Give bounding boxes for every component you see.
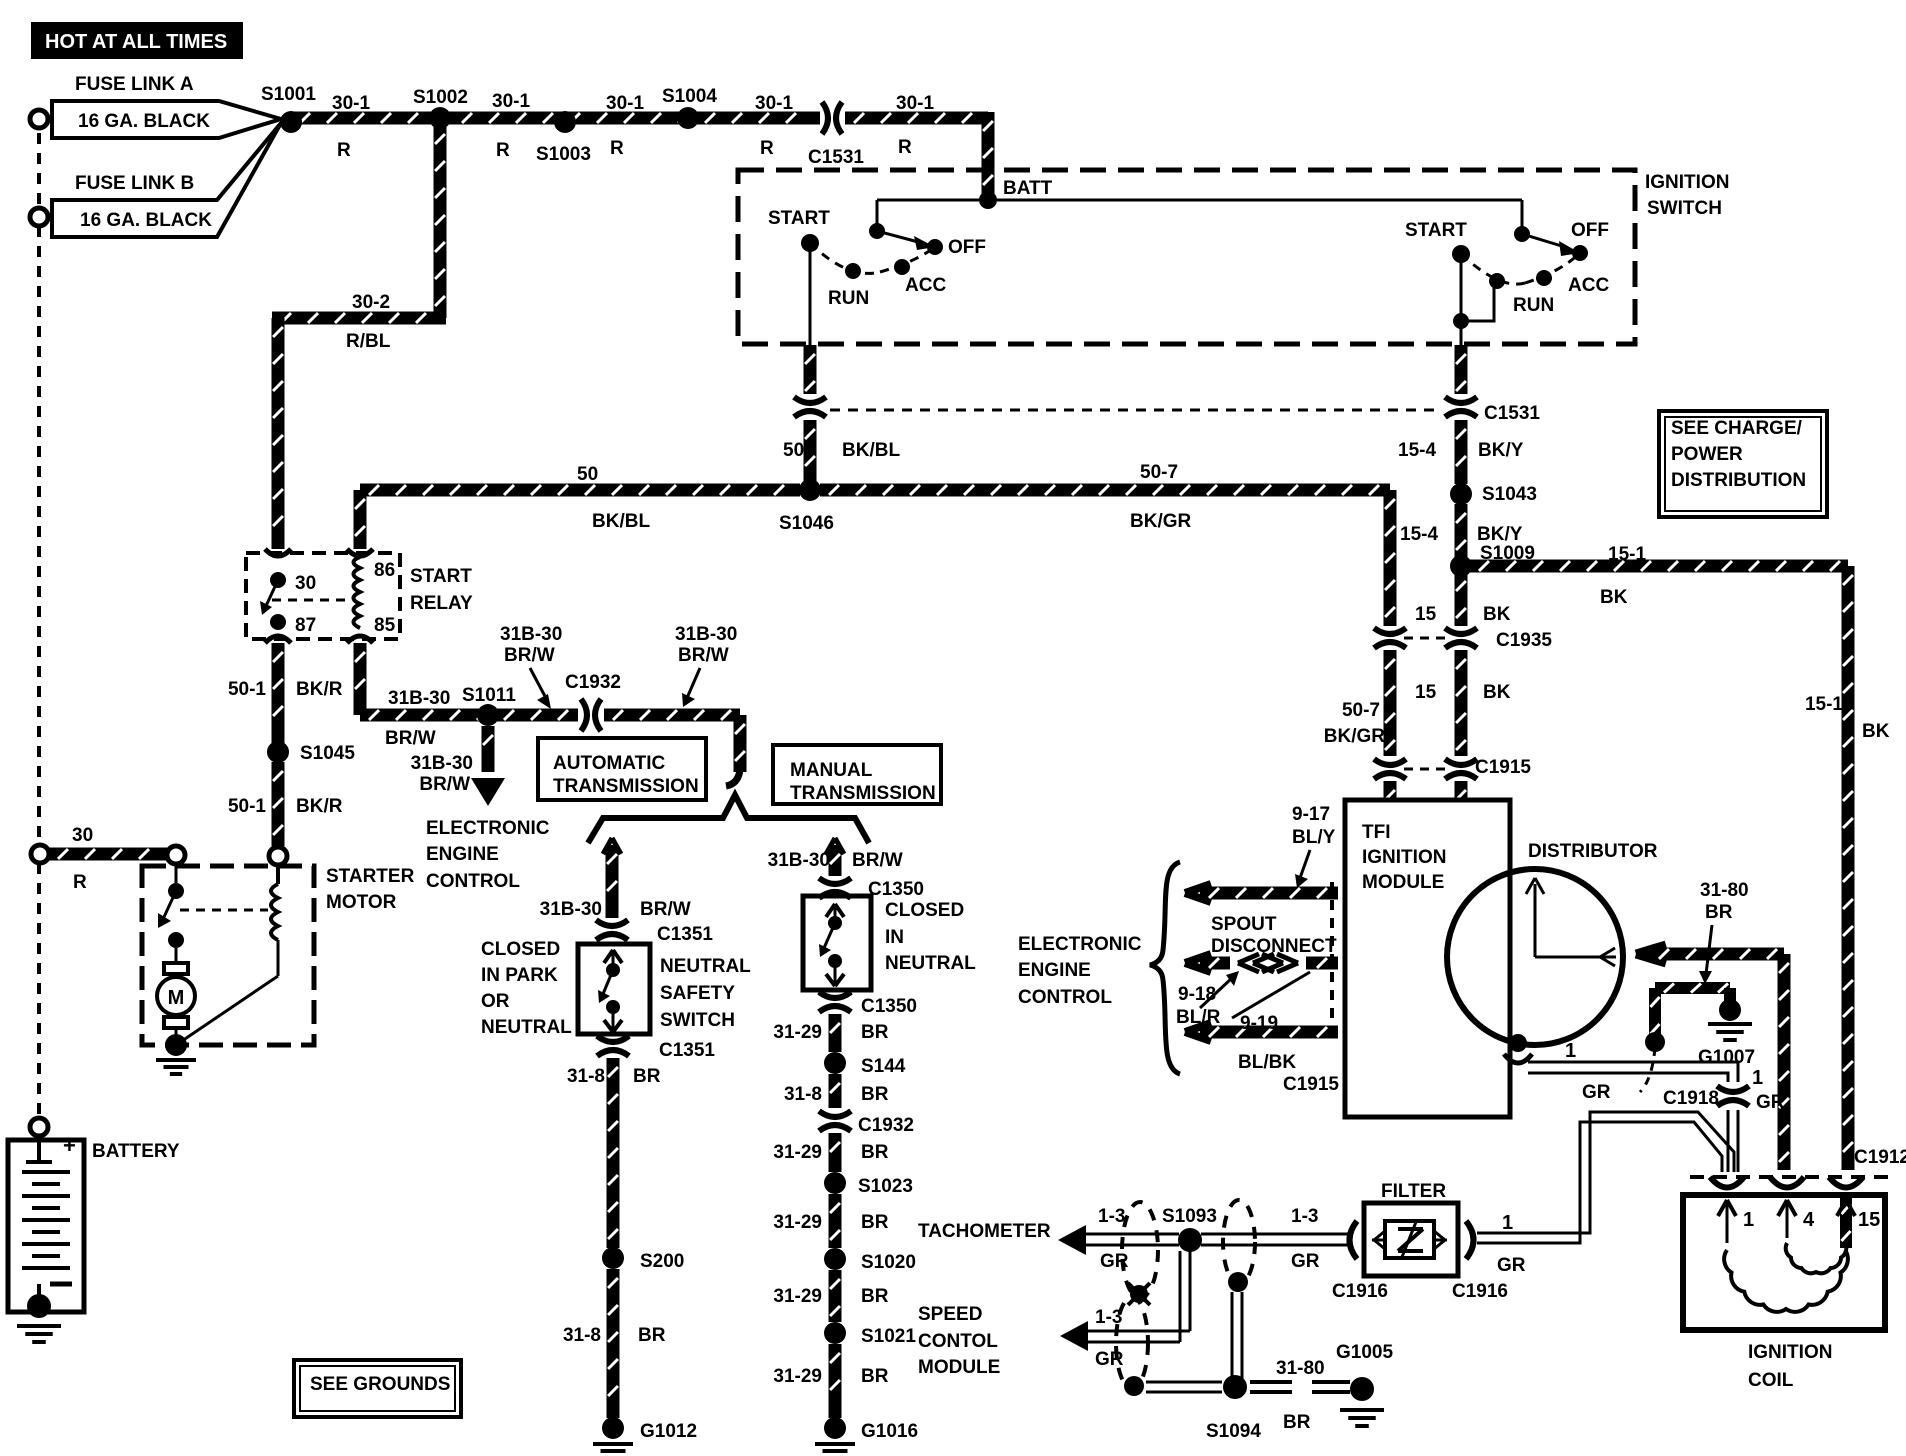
svg-text:R: R — [337, 140, 351, 161]
splice S1002 — [429, 107, 451, 129]
connector C1932 lower — [819, 1111, 851, 1117]
battery ground — [27, 1294, 51, 1318]
svg-text:BATT: BATT — [1003, 178, 1053, 199]
C1918 dashed from pigtail — [1640, 1048, 1655, 1092]
shield ring around tach wire — [1122, 1202, 1158, 1298]
svg-text:POWER: POWER — [1671, 444, 1743, 465]
svg-text:MANUAL: MANUAL — [790, 760, 873, 781]
battery box — [8, 1140, 84, 1312]
right START wire + link to RUN — [1460, 254, 1463, 321]
splice S1023 — [824, 1172, 846, 1194]
svg-text:BR: BR — [861, 1286, 889, 1307]
wire 15-1 BK to right edge — [1470, 560, 1848, 573]
svg-text:31B-30: 31B-30 — [411, 753, 473, 774]
svg-text:30-1: 30-1 — [332, 93, 370, 114]
ground G1007 — [1719, 999, 1741, 1021]
svg-text:GR: GR — [1582, 1082, 1611, 1103]
svg-text:C1350: C1350 — [868, 879, 924, 900]
right OFF contact — [1572, 245, 1588, 261]
battery feed dashed line — [37, 133, 41, 209]
svg-text:S1003: S1003 — [536, 144, 591, 165]
svg-text:OFF: OFF — [948, 237, 986, 258]
svg-text:GR: GR — [1095, 1349, 1124, 1370]
svg-text:G1016: G1016 — [861, 1421, 918, 1442]
svg-text:BK: BK — [1600, 587, 1628, 608]
svg-text:RELAY: RELAY — [410, 593, 473, 614]
svg-text:STARTER: STARTER — [326, 866, 415, 887]
svg-text:CLOSED: CLOSED — [885, 900, 964, 921]
C1531 dashed tie line — [830, 409, 1438, 412]
svg-text:COIL: COIL — [1748, 1370, 1794, 1391]
relay box pass-through arcs — [265, 549, 291, 556]
automatic transmission box — [538, 738, 706, 800]
splice S1021 — [824, 1322, 846, 1344]
svg-text:S1023: S1023 — [858, 1176, 913, 1197]
spout wire 9-19 BL/BK — [1185, 1023, 1211, 1032]
coil primary winding — [1724, 1250, 1848, 1312]
svg-text:ACC: ACC — [905, 275, 946, 296]
EEC brace — [1150, 862, 1180, 1074]
svg-text:C1912: C1912 — [1854, 1147, 1906, 1168]
splice S1004 — [677, 107, 699, 129]
coil pin 15 — [1840, 1195, 1852, 1248]
svg-text:S1011: S1011 — [462, 685, 516, 706]
splice S1003 — [554, 111, 576, 133]
svg-text:BR: BR — [861, 1366, 889, 1387]
wire 1 GR filter to coil pin 1 — [1477, 1112, 1734, 1233]
svg-text:MODULE: MODULE — [918, 1357, 1000, 1378]
wire 31B-30 BR/W from relay coil — [354, 643, 367, 715]
connector C1915 top — [1374, 759, 1406, 765]
splice S200 — [602, 1247, 624, 1269]
svg-text:BK/R: BK/R — [296, 679, 343, 700]
svg-text:NEUTRAL: NEUTRAL — [481, 1017, 572, 1038]
svg-text:31-8: 31-8 — [563, 1325, 601, 1346]
splice S1045 — [267, 741, 289, 763]
svg-text:85: 85 — [374, 615, 396, 636]
svg-text:31-29: 31-29 — [773, 1286, 822, 1307]
left START contact — [801, 234, 819, 252]
starter motor dashed box — [142, 866, 314, 1045]
filter side arrows — [1372, 1239, 1385, 1242]
svg-text:OFF: OFF — [1571, 220, 1609, 241]
wire 15-4 BK/Y drop from right switch — [1455, 345, 1468, 394]
splice S144 — [824, 1052, 846, 1074]
shield ring drain node — [1130, 1285, 1148, 1303]
left OFF contact — [927, 239, 943, 255]
wire BATT to right pivot — [988, 199, 1522, 202]
svg-text:1: 1 — [1752, 1067, 1763, 1089]
svg-text:CONTROL: CONTROL — [1018, 987, 1112, 1008]
ground G1012 — [602, 1417, 624, 1439]
wire 31-8 BR — [607, 1058, 620, 1248]
right ACC contact — [1536, 270, 1552, 286]
fuse link A terminal — [30, 110, 48, 128]
wire 1 GR C1918 down to coil pin 1 — [1727, 1110, 1730, 1172]
starter solenoid terminal — [167, 846, 185, 864]
fuse link B terminal — [30, 208, 48, 226]
svg-text:BK: BK — [1483, 682, 1511, 703]
svg-text:ACC: ACC — [1568, 275, 1609, 296]
svg-text:C1916: C1916 — [1452, 1281, 1508, 1302]
svg-text:NEUTRAL: NEUTRAL — [660, 956, 751, 977]
svg-text:31B-30: 31B-30 — [500, 624, 562, 645]
svg-text:SAFETY: SAFETY — [660, 983, 735, 1004]
fuse link A tag — [52, 101, 281, 138]
svg-text:CLOSED: CLOSED — [481, 939, 560, 960]
svg-text:S1043: S1043 — [1482, 484, 1537, 505]
connector C1916 halves — [1350, 1221, 1358, 1259]
C1350 switch internals — [826, 904, 835, 917]
svg-text:G1012: G1012 — [640, 1421, 697, 1442]
svg-text:C1932: C1932 — [858, 1115, 914, 1136]
svg-text:IN: IN — [885, 927, 904, 948]
wire 1 GR distributor to C1918 — [1528, 1062, 1738, 1082]
svg-text:BR: BR — [1283, 1412, 1311, 1433]
svg-text:BK/GR: BK/GR — [1130, 511, 1192, 532]
svg-text:SEE CHARGE/: SEE CHARGE/ — [1671, 418, 1803, 439]
TFI ignition module box — [1345, 800, 1510, 1117]
filter box — [1364, 1203, 1458, 1276]
wire BATT to left pivot — [877, 199, 988, 202]
svg-text:9-18: 9-18 — [1178, 984, 1216, 1005]
svg-text:50: 50 — [577, 464, 598, 485]
svg-text:R/BL: R/BL — [346, 331, 391, 352]
connector C1531 right half — [1445, 397, 1477, 403]
connector C1350 lower — [819, 992, 851, 998]
svg-text:16 GA. BLACK: 16 GA. BLACK — [80, 210, 212, 231]
svg-text:15: 15 — [1415, 682, 1437, 703]
svg-text:30-1: 30-1 — [896, 93, 934, 114]
svg-text:IGNITION: IGNITION — [1362, 847, 1446, 868]
svg-text:86: 86 — [374, 560, 395, 581]
svg-text:15: 15 — [1858, 1209, 1880, 1231]
svg-text:1: 1 — [1565, 1040, 1576, 1062]
svg-text:BR: BR — [633, 1066, 661, 1087]
svg-text:C1351: C1351 — [659, 1040, 715, 1061]
svg-text:BR: BR — [861, 1212, 889, 1233]
filter Z symbol — [1398, 1227, 1423, 1231]
svg-text:NEUTRAL: NEUTRAL — [885, 953, 976, 974]
svg-text:S1094: S1094 — [1206, 1421, 1261, 1442]
wire 50-1 BK/R — [272, 643, 285, 744]
svg-text:G1007: G1007 — [1698, 1047, 1755, 1068]
svg-text:31-29: 31-29 — [773, 1022, 822, 1043]
svg-text:31-29: 31-29 — [773, 1142, 822, 1163]
svg-text:TRANSMISSION: TRANSMISSION — [790, 783, 936, 804]
svg-text:SWITCH: SWITCH — [1647, 198, 1722, 219]
splice S1093 — [1178, 1228, 1202, 1252]
svg-text:1: 1 — [1743, 1209, 1754, 1231]
svg-text:C1531: C1531 — [1484, 403, 1540, 424]
left RUN contact — [845, 263, 861, 279]
svg-text:31-29: 31-29 — [773, 1212, 822, 1233]
svg-text:1: 1 — [1502, 1212, 1513, 1234]
ignition coil box — [1683, 1195, 1885, 1330]
svg-text:16 GA. BLACK: 16 GA. BLACK — [78, 111, 210, 132]
svg-text:C1935: C1935 — [1496, 630, 1552, 651]
svg-text:FUSE LINK B: FUSE LINK B — [75, 173, 194, 194]
coil feed wire to distributor — [1636, 945, 1666, 954]
SEE CHARGE/POWER DISTRIBUTION box — [1659, 411, 1827, 517]
svg-text:MODULE: MODULE — [1362, 872, 1444, 893]
svg-text:30: 30 — [72, 825, 93, 846]
ground G1016 — [824, 1417, 846, 1439]
svg-text:15-1: 15-1 — [1805, 694, 1843, 715]
connector C1351 upper — [596, 920, 628, 926]
svg-text:31B-30: 31B-30 — [388, 688, 450, 709]
svg-text:R: R — [760, 138, 774, 159]
svg-text:IGNITION: IGNITION — [1748, 1342, 1832, 1363]
relay contact 87 — [270, 614, 286, 630]
svg-text:START: START — [768, 208, 830, 229]
svg-text:RUN: RUN — [1513, 295, 1554, 316]
svg-text:IGNITION: IGNITION — [1645, 172, 1729, 193]
left switch dashed arc — [810, 243, 880, 273]
svg-text:31-80: 31-80 — [1276, 1358, 1325, 1379]
battery plus — [37, 1136, 41, 1162]
svg-text:BK: BK — [1483, 604, 1511, 625]
svg-text:R: R — [496, 140, 510, 161]
coil pin 4 — [1778, 1200, 1787, 1216]
battery plates — [22, 1170, 70, 1174]
svg-text:TRANSMISSION: TRANSMISSION — [553, 776, 699, 797]
svg-text:31B-30: 31B-30 — [675, 624, 737, 645]
svg-text:OR: OR — [481, 991, 510, 1012]
solenoid coil — [276, 865, 280, 884]
svg-text:9-17: 9-17 — [1292, 804, 1330, 825]
svg-text:R: R — [898, 137, 912, 158]
svg-text:ELECTRONIC: ELECTRONIC — [426, 818, 550, 839]
svg-text:C1351: C1351 — [657, 924, 713, 945]
wire 31-80 BR to G1007 — [1649, 988, 1661, 1038]
wire 30-1 R from S1001 to C1531 — [291, 112, 820, 125]
svg-text:C1915: C1915 — [1283, 1074, 1339, 1095]
relay blade — [266, 580, 278, 606]
svg-text:30-1: 30-1 — [606, 93, 644, 114]
svg-text:SWITCH: SWITCH — [660, 1010, 735, 1031]
coil pin 1 — [1718, 1200, 1727, 1216]
connector C1531 inline — [822, 102, 828, 134]
svg-text:GR: GR — [1291, 1251, 1320, 1272]
svg-text:BK/GR: BK/GR — [1324, 726, 1386, 747]
svg-text:BL/Y: BL/Y — [1292, 827, 1336, 848]
svg-text:C1531: C1531 — [808, 147, 864, 168]
svg-text:9-19: 9-19 — [1240, 1013, 1278, 1034]
svg-text:BR: BR — [861, 1084, 889, 1105]
svg-text:START: START — [410, 566, 472, 587]
drain wire down to S1094 — [1231, 1292, 1234, 1382]
svg-text:C1916: C1916 — [1332, 1281, 1388, 1302]
svg-text:S1045: S1045 — [300, 743, 355, 764]
right START contact — [1452, 245, 1470, 263]
svg-text:+: + — [63, 1133, 76, 1158]
svg-text:ELECTRONIC: ELECTRONIC — [1018, 934, 1142, 955]
svg-text:BK: BK — [1862, 721, 1890, 742]
svg-text:87: 87 — [295, 615, 316, 636]
wire 30-2 R/BL — [434, 125, 447, 318]
svg-text:BR/W: BR/W — [852, 850, 903, 871]
svg-text:S1001: S1001 — [261, 84, 316, 105]
wire 1-3 GR filter to S1093 — [1201, 1233, 1352, 1236]
svg-text:BR: BR — [861, 1142, 889, 1163]
connector C1912 — [1690, 1175, 1888, 1179]
svg-text:S200: S200 — [640, 1251, 684, 1272]
ignition switch dashed box — [738, 170, 1635, 344]
svg-text:CONTOL: CONTOL — [918, 1331, 998, 1352]
HOT AT ALL TIMES banner — [31, 22, 243, 59]
svg-text:31-29: 31-29 — [773, 1366, 822, 1387]
fuse link B tag — [52, 123, 281, 237]
svg-text:BL/BK: BL/BK — [1238, 1052, 1296, 1073]
svg-text:FUSE LINK A: FUSE LINK A — [75, 74, 194, 95]
start relay dashed box — [246, 553, 400, 639]
spout wire 9-18 BL/R with disconnect — [1185, 954, 1211, 963]
starter 50-1 terminal — [269, 847, 287, 865]
svg-text:BR/W: BR/W — [504, 645, 555, 666]
solenoid switch — [175, 864, 178, 884]
svg-text:15-1: 15-1 — [1608, 544, 1646, 565]
splice S1011 — [477, 704, 499, 726]
svg-text:R: R — [73, 872, 87, 893]
svg-text:C1932: C1932 — [565, 672, 621, 693]
svg-text:BK/R: BK/R — [296, 796, 343, 817]
splice S1043 — [1450, 483, 1472, 505]
connector C1918 — [1717, 1086, 1749, 1092]
svg-text:S144: S144 — [861, 1056, 906, 1077]
svg-text:MOTOR: MOTOR — [326, 892, 397, 913]
left switch blade to OFF — [877, 231, 922, 243]
svg-text:HOT AT ALL TIMES: HOT AT ALL TIMES — [45, 31, 227, 53]
right switch pivot — [1514, 226, 1530, 242]
svg-text:50-1: 50-1 — [228, 679, 266, 700]
svg-text:SPEED: SPEED — [918, 1304, 982, 1325]
splice S1020 — [824, 1248, 846, 1270]
svg-text:TFI: TFI — [1362, 822, 1391, 843]
svg-text:50: 50 — [783, 440, 804, 461]
svg-text:BK/BL: BK/BL — [592, 511, 650, 532]
svg-text:S1004: S1004 — [662, 86, 717, 107]
wire end hook at brace — [726, 770, 740, 786]
svg-text:31-8: 31-8 — [784, 1084, 822, 1105]
svg-text:C1918: C1918 — [1663, 1088, 1719, 1109]
svg-text:31-80: 31-80 — [1700, 880, 1749, 901]
svg-text:BATTERY: BATTERY — [92, 1141, 180, 1162]
svg-text:S1020: S1020 — [861, 1252, 916, 1273]
svg-text:30-1: 30-1 — [755, 93, 793, 114]
svg-text:50-7: 50-7 — [1140, 462, 1178, 483]
wire 31B-30 BR/W auto column — [603, 838, 612, 854]
svg-text:1-3: 1-3 — [1291, 1206, 1318, 1227]
right switch blade to OFF — [1522, 234, 1565, 247]
connector C1351 lower — [597, 1036, 629, 1042]
wire 50 BK/BL drop from left switch — [804, 345, 817, 394]
NSS internals — [604, 950, 613, 963]
splice S1094 — [1223, 1375, 1247, 1399]
svg-text:BR: BR — [861, 1022, 889, 1043]
svg-text:S1046: S1046 — [779, 513, 834, 534]
svg-text:ENGINE: ENGINE — [1018, 960, 1091, 981]
svg-text:FILTER: FILTER — [1381, 1181, 1446, 1202]
battery minus — [50, 1282, 72, 1287]
svg-text:G1005: G1005 — [1336, 1342, 1393, 1363]
svg-text:50-7: 50-7 — [1342, 700, 1380, 721]
node BATT — [979, 191, 997, 209]
distributor circle — [1447, 869, 1623, 1045]
svg-text:M: M — [168, 987, 185, 1009]
svg-text:GR: GR — [1497, 1255, 1526, 1276]
coil secondary winding — [1786, 1243, 1847, 1273]
closed in neutral switch box — [803, 896, 871, 990]
svg-text:AUTOMATIC: AUTOMATIC — [553, 753, 666, 774]
svg-text:SPOUT: SPOUT — [1211, 914, 1277, 935]
svg-text:BK/Y: BK/Y — [1478, 440, 1524, 461]
shield ring around speed wire — [1116, 1297, 1148, 1389]
svg-text:BR: BR — [1705, 902, 1733, 923]
wire 31-29 BR — [829, 1014, 842, 1052]
svg-text:BR: BR — [638, 1325, 666, 1346]
svg-text:DISTRIBUTOR: DISTRIBUTOR — [1528, 841, 1658, 862]
svg-text:CONTROL: CONTROL — [426, 871, 520, 892]
SEE GROUNDS box — [294, 1360, 461, 1417]
svg-text:DISTRIBUTION: DISTRIBUTION — [1671, 470, 1806, 491]
rotor arrow — [1534, 884, 1537, 957]
manual transmission box — [773, 745, 941, 804]
svg-text:31B-30: 31B-30 — [768, 850, 830, 871]
solenoid link dashed — [180, 909, 268, 912]
svg-text:4: 4 — [1803, 1209, 1815, 1231]
svg-text:BK/Y: BK/Y — [1477, 524, 1523, 545]
relay coil — [354, 557, 361, 628]
svg-text:BR/W: BR/W — [640, 899, 691, 920]
svg-text:31B-30: 31B-30 — [540, 899, 602, 920]
svg-text:50-1: 50-1 — [228, 796, 266, 817]
battery terminal circle — [30, 1118, 48, 1136]
wire 31B-30 BR/W stub to EEC — [482, 726, 495, 772]
wire 31-80 BR to G1005 — [1250, 1380, 1292, 1384]
shield ring around filter wire — [1223, 1200, 1255, 1284]
wire 50 BK/BL horizontal run — [360, 484, 800, 497]
wire 30-1 R drop to BATT — [982, 112, 995, 200]
svg-text:S1093: S1093 — [1162, 1206, 1217, 1227]
svg-text:BK/BL: BK/BL — [842, 440, 900, 461]
motor M — [175, 948, 178, 963]
wire 50-7 BK/GR drop — [1384, 490, 1397, 626]
svg-text:TACHOMETER: TACHOMETER — [918, 1221, 1051, 1242]
relay link dashed — [272, 599, 350, 602]
starter ground node — [165, 1034, 187, 1056]
svg-text:31-8: 31-8 — [567, 1066, 605, 1087]
C1915 dashed connector line on TFI edge — [1330, 882, 1334, 1040]
svg-text:R: R — [610, 138, 624, 159]
left ACC contact — [894, 259, 910, 275]
svg-text:START: START — [1405, 220, 1467, 241]
svg-text:15-4: 15-4 — [1400, 524, 1438, 545]
distributor bottom node — [1509, 1034, 1527, 1052]
right RUN contact — [1489, 273, 1505, 289]
svg-text:BR/W: BR/W — [678, 645, 729, 666]
svg-text:RUN: RUN — [828, 288, 869, 309]
svg-text:IN PARK: IN PARK — [481, 965, 558, 986]
left START wire down — [809, 243, 812, 345]
pigtail connector blob — [1645, 1032, 1665, 1052]
svg-text:DISCONNECT: DISCONNECT — [1211, 936, 1337, 957]
svg-text:BR/W: BR/W — [419, 774, 470, 795]
svg-text:BR/W: BR/W — [385, 728, 436, 749]
svg-text:30-1: 30-1 — [492, 91, 530, 112]
splice S1009 — [1450, 555, 1472, 577]
drain wire to S1094 — [1146, 1381, 1222, 1384]
